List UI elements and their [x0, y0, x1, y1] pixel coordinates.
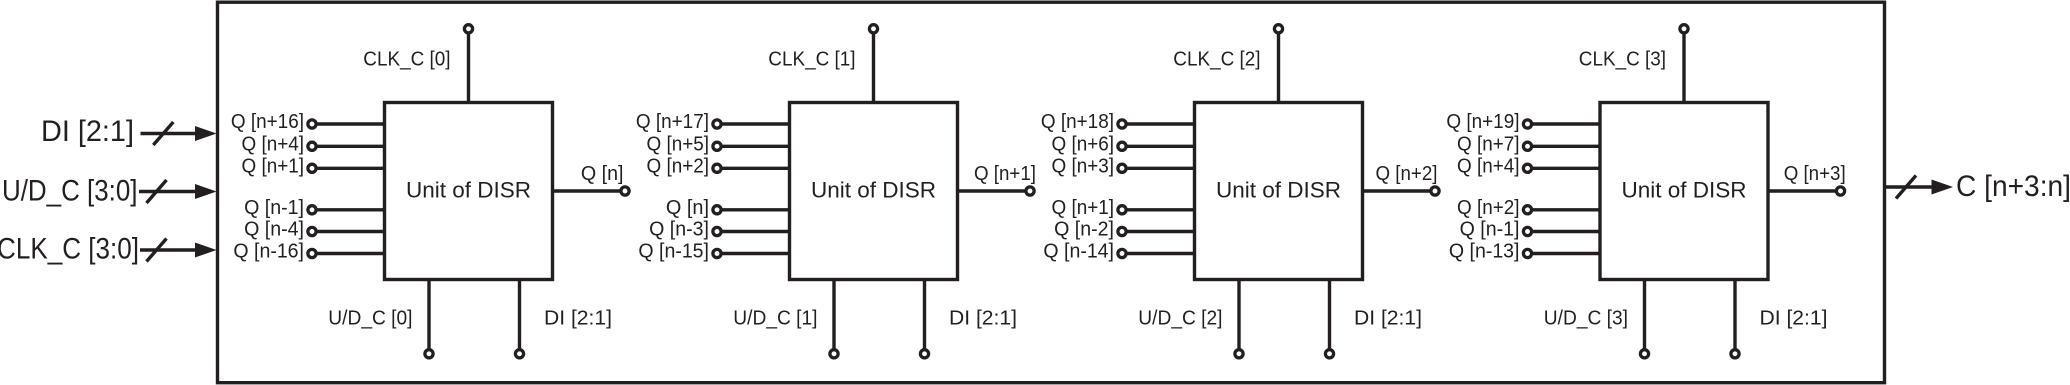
terminal input Q [n+16] U1: [308, 120, 316, 128]
terminal DI [2:1] U1: [515, 350, 523, 358]
wire CLK stub U3: [1277, 34, 1280, 103]
svg-text:DI [2:1]: DI [2:1]: [949, 308, 1017, 330]
wire input Q [n+5] U2: [720, 145, 790, 148]
terminal input Q [n+2] U2: [713, 164, 721, 172]
svg-text:Q [n-1]: Q [n-1]: [244, 197, 304, 219]
svg-text:Q [n+2]: Q [n+2]: [647, 155, 710, 177]
terminal output Q [n+1] U2: [1026, 187, 1034, 195]
terminal input Q [n-3] U2: [713, 227, 721, 235]
terminal input Q [n+4] U1: [308, 142, 316, 150]
svg-text:DI [2:1]: DI [2:1]: [1760, 308, 1828, 330]
wire input Q [n+4] U4: [1531, 167, 1601, 170]
terminal CLK_C [1]: [869, 25, 877, 33]
wire input Q [n] U2: [720, 208, 790, 211]
unit of DISR U2 box: [790, 103, 958, 280]
wire input Q [n+18] U3: [1125, 122, 1195, 125]
wire input Q [n-15] U2: [720, 252, 790, 255]
wire input Q [n-2] U3: [1125, 230, 1195, 233]
terminal CLK_C [2]: [1274, 25, 1282, 33]
svg-text:Q [n+4]: Q [n+4]: [1457, 155, 1520, 177]
svg-text:Q [n+4]: Q [n+4]: [242, 133, 305, 155]
wire input Q [n+7] U4: [1531, 145, 1601, 148]
wire U/D_C bus arrow: [139, 190, 201, 193]
terminal DI [2:1] U2: [920, 350, 928, 358]
svg-text:CLK_C [1]: CLK_C [1]: [768, 49, 855, 71]
svg-text:Q [n+2]: Q [n+2]: [1376, 163, 1438, 185]
svg-text:Q [n-15]: Q [n-15]: [638, 241, 709, 263]
wire input Q [n+6] U3: [1125, 145, 1195, 148]
svg-text:Q [n+3]: Q [n+3]: [1052, 155, 1115, 177]
terminal input Q [n+4] U4: [1523, 164, 1531, 172]
terminal input Q [n-14] U3: [1118, 249, 1126, 257]
wire output Q [n+2] U3: [1363, 189, 1433, 192]
wire U/D_C [0] stub U1: [427, 280, 430, 351]
wire DI [2:1] stub U4: [1733, 280, 1736, 351]
svg-text:Unit of DISR: Unit of DISR: [1621, 178, 1746, 203]
wire input Q [n+2] U2: [720, 167, 790, 170]
wire CLK stub U1: [467, 34, 470, 103]
bus slash U/D_C: [147, 180, 167, 203]
terminal input Q [n-2] U3: [1118, 227, 1126, 235]
arrowhead C: [1932, 180, 1954, 195]
outer enclosure box: [218, 2, 1885, 383]
terminal input Q [n+3] U3: [1118, 164, 1126, 172]
wire output Q [n] U1: [553, 189, 623, 192]
terminal CLK_C [0]: [464, 25, 472, 33]
terminal input Q [n+2] U4: [1523, 206, 1531, 214]
wire input Q [n+3] U3: [1125, 167, 1195, 170]
terminal U/D_C [2] U3: [1235, 350, 1243, 358]
svg-text:Q [n+3]: Q [n+3]: [1784, 163, 1846, 185]
svg-text:Q [n-1]: Q [n-1]: [1460, 219, 1520, 241]
wire input Q [n-13] U4: [1531, 252, 1601, 255]
terminal CLK_C [3]: [1680, 25, 1688, 33]
terminal input Q [n-16] U1: [308, 249, 316, 257]
terminal U/D_C [0] U1: [425, 350, 433, 358]
terminal output Q [n] U1: [621, 187, 629, 195]
svg-text:DI [2:1]: DI [2:1]: [544, 308, 612, 330]
svg-text:Unit of DISR: Unit of DISR: [811, 178, 936, 203]
terminal input Q [n-1] U4: [1523, 227, 1531, 235]
svg-text:Unit of DISR: Unit of DISR: [1216, 178, 1341, 203]
unit of DISR U4 box: [1600, 103, 1768, 280]
terminal input Q [n-1] U1: [308, 206, 316, 214]
arrowhead DI bus: [195, 126, 217, 141]
wire input Q [n+16] U1: [315, 122, 385, 125]
terminal input Q [n+5] U2: [713, 142, 721, 150]
wire input Q [n-1] U4: [1531, 230, 1601, 233]
svg-text:C [n+3:n]: C [n+3:n]: [1956, 170, 2070, 203]
terminal input Q [n] U2: [713, 206, 721, 214]
bus slash DI: [153, 122, 173, 145]
svg-text:Q [n-4]: Q [n-4]: [244, 219, 304, 241]
wire CLK stub U2: [872, 34, 875, 103]
svg-text:Q [n-13]: Q [n-13]: [1449, 241, 1520, 263]
svg-text:Q [n+6]: Q [n+6]: [1052, 133, 1115, 155]
terminal input Q [n+6] U3: [1118, 142, 1126, 150]
wire input Q [n+1] U3: [1125, 208, 1195, 211]
terminal input Q [n+19] U4: [1523, 120, 1531, 128]
svg-text:Unit of DISR: Unit of DISR: [406, 178, 531, 203]
svg-text:Q [n]: Q [n]: [666, 197, 709, 219]
wire input Q [n-1] U1: [315, 208, 385, 211]
wire input Q [n-16] U1: [315, 252, 385, 255]
terminal input Q [n-13] U4: [1523, 249, 1531, 257]
wire U/D_C [3] stub U4: [1643, 280, 1646, 351]
wire input Q [n-4] U1: [315, 230, 385, 233]
svg-text:Q [n-3]: Q [n-3]: [649, 219, 709, 241]
terminal output Q [n+2] U3: [1431, 187, 1439, 195]
svg-text:DI [2:1]: DI [2:1]: [1354, 308, 1422, 330]
terminal output Q [n+3] U4: [1836, 187, 1844, 195]
svg-text:Q [n+1]: Q [n+1]: [242, 155, 305, 177]
svg-text:U/D_C [2]: U/D_C [2]: [1138, 308, 1222, 330]
terminal input Q [n+1] U1: [308, 164, 316, 172]
terminal input Q [n+18] U3: [1118, 120, 1126, 128]
svg-text:Q [n+18]: Q [n+18]: [1041, 111, 1114, 133]
wire output Q [n+3] U4: [1768, 189, 1838, 192]
wire input Q [n+2] U4: [1531, 208, 1601, 211]
svg-text:Q [n+5]: Q [n+5]: [647, 133, 710, 155]
svg-text:Q [n+17]: Q [n+17]: [636, 111, 709, 133]
wire DI [2:1] stub U1: [518, 280, 521, 351]
svg-text:CLK_C [0]: CLK_C [0]: [363, 49, 450, 71]
wire CLK_C bus arrow: [140, 248, 201, 251]
svg-text:Q [n+7]: Q [n+7]: [1457, 133, 1520, 155]
svg-text:CLK_C [3:0]: CLK_C [3:0]: [0, 233, 139, 266]
wire input Q [n-3] U2: [720, 230, 790, 233]
wire input Q [n+17] U2: [720, 122, 790, 125]
arrowhead CLK_C bus: [195, 243, 217, 258]
svg-text:Q [n-2]: Q [n-2]: [1054, 219, 1114, 241]
svg-text:U/D_C [3]: U/D_C [3]: [1544, 308, 1628, 330]
svg-text:U/D_C [1]: U/D_C [1]: [733, 308, 817, 330]
wire DI bus arrow: [141, 132, 202, 135]
wire output bus C: [1885, 185, 1932, 188]
svg-text:Q [n-16]: Q [n-16]: [233, 241, 304, 263]
svg-text:Q [n+1]: Q [n+1]: [974, 163, 1036, 185]
terminal DI [2:1] U4: [1731, 350, 1739, 358]
svg-text:Q [n+2]: Q [n+2]: [1457, 197, 1520, 219]
svg-text:Q [n+16]: Q [n+16]: [231, 111, 304, 133]
wire DI [2:1] stub U2: [923, 280, 926, 351]
terminal U/D_C [1] U2: [830, 350, 838, 358]
wire CLK stub U4: [1682, 34, 1685, 103]
terminal input Q [n+7] U4: [1523, 142, 1531, 150]
wire U/D_C [2] stub U3: [1237, 280, 1240, 351]
svg-text:Q [n-14]: Q [n-14]: [1043, 241, 1114, 263]
arrowhead U/D_C bus: [195, 184, 217, 199]
bus slash CLK_C: [147, 239, 167, 262]
svg-text:CLK_C [3]: CLK_C [3]: [1579, 49, 1666, 71]
unit of DISR U3 box: [1195, 103, 1363, 280]
svg-text:Q [n]: Q [n]: [581, 163, 624, 185]
terminal input Q [n-15] U2: [713, 249, 721, 257]
svg-text:U/D_C [3:0]: U/D_C [3:0]: [2, 175, 138, 208]
terminal U/D_C [3] U4: [1640, 350, 1648, 358]
svg-text:Q [n+1]: Q [n+1]: [1052, 197, 1115, 219]
wire input Q [n+4] U1: [315, 145, 385, 148]
terminal input Q [n+17] U2: [713, 120, 721, 128]
terminal input Q [n-4] U1: [308, 227, 316, 235]
wire U/D_C [1] stub U2: [832, 280, 835, 351]
svg-text:Q [n+19]: Q [n+19]: [1446, 111, 1519, 133]
terminal DI [2:1] U3: [1325, 350, 1333, 358]
wire DI [2:1] stub U3: [1328, 280, 1331, 351]
svg-text:DI [2:1]: DI [2:1]: [41, 115, 134, 148]
svg-text:CLK_C [2]: CLK_C [2]: [1173, 49, 1260, 71]
wire input Q [n+19] U4: [1531, 122, 1601, 125]
svg-text:U/D_C [0]: U/D_C [0]: [328, 308, 412, 330]
wire input Q [n-14] U3: [1125, 252, 1195, 255]
wire output Q [n+1] U2: [958, 189, 1028, 192]
terminal input Q [n+1] U3: [1118, 206, 1126, 214]
wire input Q [n+1] U1: [315, 167, 385, 170]
bus slash C: [1896, 176, 1916, 199]
unit of DISR U1 box: [385, 103, 553, 280]
